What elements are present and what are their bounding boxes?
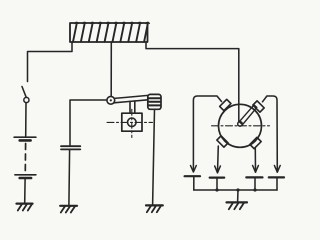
electrode upper-left <box>220 99 231 110</box>
cam centre lines <box>107 109 153 137</box>
switch S1 <box>22 87 29 103</box>
cam <box>122 113 142 131</box>
plug 3 stem <box>254 179 256 191</box>
wire coil center tap to breaker pivot <box>110 42 112 96</box>
wire lower-left electrode to spark plug 2 <box>217 146 220 173</box>
wire fixed contact to ground <box>153 109 155 205</box>
spark gap plug 2 <box>210 177 225 179</box>
electrode lower-left <box>217 136 228 147</box>
distributor cap body <box>219 104 262 147</box>
contact breaker pivot <box>107 96 115 104</box>
earth bus wire <box>194 189 277 191</box>
ground (distributor) <box>227 202 248 209</box>
wire switch to battery <box>25 103 27 137</box>
electrode upper-right <box>253 101 264 112</box>
breaker fixed contact stack <box>148 94 161 109</box>
junction ground stem/bus <box>236 188 239 191</box>
spark gap plug 1 <box>185 175 200 177</box>
ground (battery) <box>17 204 33 211</box>
breaker lever arm <box>114 95 148 102</box>
electrode lower-right <box>250 137 261 148</box>
arrowhead plug 1 <box>191 166 197 173</box>
ground (capacitor) <box>60 206 77 213</box>
arrowhead plug 3 <box>253 166 259 173</box>
wire coil left tap to switch <box>28 42 73 82</box>
cam follower <box>130 101 135 113</box>
arrowhead plug 4 <box>274 166 280 173</box>
rotor arm <box>238 105 257 126</box>
junction plug3/bus <box>253 188 256 191</box>
wire battery to ground <box>24 179 26 203</box>
wire capacitor to pivot (node) <box>70 100 107 146</box>
wire cap outline left to spark plug 1 <box>193 96 221 172</box>
junction plug2/bus <box>215 188 218 191</box>
spark gap plug 4 <box>269 176 284 178</box>
spark gap plug 3 <box>246 176 262 178</box>
plug 4 stem <box>276 179 278 191</box>
wire lower-right electrode to spark plug 3 <box>254 149 256 173</box>
plug 1 stem <box>193 177 195 190</box>
wire coil right tap to distributor centre <box>146 42 239 121</box>
battery B1 <box>14 137 36 178</box>
ground (breaker) <box>146 205 163 212</box>
capacitor C1 <box>61 146 80 149</box>
wire cap outline right to spark plug 4 <box>263 96 278 172</box>
wire capacitor to ground <box>68 150 71 206</box>
plug 2 stem <box>216 179 218 190</box>
distributor centre line <box>212 125 270 127</box>
wire bus to ground <box>237 190 239 202</box>
ignition coil L1 <box>70 22 149 42</box>
arrowhead plug 2 <box>215 166 221 173</box>
